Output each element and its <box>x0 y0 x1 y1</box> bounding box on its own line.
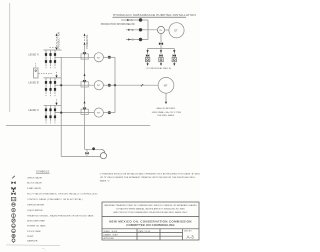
valve on pump discharge <box>159 42 163 45</box>
svg-text:POWER OIL TANK: POWER OIL TANK <box>27 225 46 228</box>
legend row pilot valve <box>11 191 97 196</box>
legend row control panel <box>11 197 82 201</box>
svg-text:LEASE 'C': LEASE 'C' <box>29 109 40 112</box>
wire production line A <box>121 18 148 22</box>
node junction dot A <box>139 18 142 21</box>
svg-text:BASIS "C": BASIS "C" <box>100 180 110 183</box>
svg-text:BLOCK VALVE: BLOCK VALVE <box>27 182 42 185</box>
wellhead WT lease B <box>94 81 103 90</box>
svg-text:OR "B" WELLS WHERE THE SEPARAT: OR "B" WELLS WHERE THE SEPARATE TREATING… <box>100 176 196 179</box>
wire dashed power supply riser A <box>56 33 58 47</box>
wire dashed stub left of riser A <box>50 46 57 48</box>
label vertical riser A <box>59 32 61 49</box>
wire lease B production line <box>55 84 94 86</box>
lease A manifold <box>29 50 62 69</box>
motor ET <box>169 23 184 38</box>
node dot return B <box>60 84 62 86</box>
svg-text:THE WELL BASIS: THE WELL BASIS <box>157 114 175 117</box>
wellhead WT lease A <box>94 53 103 62</box>
sheet left border line <box>9 3 11 112</box>
wire collector bus vertical <box>114 57 116 112</box>
wellhead WT lease C <box>94 108 103 117</box>
svg-text:1/ TREATERS SHOULD BE INSTALLE: 1/ TREATERS SHOULD BE INSTALLED AND OPER… <box>100 172 201 175</box>
svg-text:DATE 2-3-58: DATE 2-3-58 <box>139 230 150 233</box>
title block frame <box>102 202 199 240</box>
svg-text:PRODUCTION SHOWN BELOW: PRODUCTION SHOWN BELOW <box>101 24 136 26</box>
svg-text:A-3: A-3 <box>187 235 195 240</box>
wire production to vessel <box>115 84 158 86</box>
legend row treating vessel <box>12 214 94 218</box>
legend row stock tank <box>12 229 42 233</box>
branch well A feed: wire, valve, meter <box>145 49 149 66</box>
svg-text:PILOT VALVE (PNEUMATIC OR ELEC: PILOT VALVE (PNEUMATIC OR ELECTRICALLY C… <box>27 193 98 196</box>
arrow power feed into lease C manifold <box>55 103 57 106</box>
svg-text:ORIFICE METER: ORIFICE METER <box>27 205 45 207</box>
lease C manifold <box>29 105 62 123</box>
wire dashed stub above lease B <box>56 72 58 76</box>
wire vessel outlet down <box>165 93 167 104</box>
regulator on lease B line <box>81 80 88 87</box>
svg-text:COMMITTEE ON COMMINGLING: COMMITTEE ON COMMINGLING <box>126 223 175 227</box>
title block divider 2 <box>102 228 199 230</box>
title block commission name <box>109 219 192 227</box>
note paragraph <box>100 172 206 182</box>
label TO INDIVIDUAL WELLS <box>146 67 171 70</box>
branch well B feed: wire, valve, meter <box>159 49 163 66</box>
node dot collector B <box>114 84 116 86</box>
wire production header vertical <box>147 20 149 40</box>
arrow power feed into lease B manifold <box>55 75 57 78</box>
svg-text:PRODUCTION: PRODUCTION <box>59 32 61 49</box>
wire distribution header <box>148 48 175 50</box>
regulator on lease C line <box>81 108 88 115</box>
wire production line B <box>126 28 157 32</box>
svg-text:DWG NO: DWG NO <box>184 230 192 232</box>
svg-text:USED SMALL GA. OR 2# PSIG: USED SMALL GA. OR 2# PSIG <box>152 111 182 114</box>
svg-text:DRAWN W.E.P.: DRAWN W.E.P. <box>104 233 119 236</box>
label GAS-OIL RETURN <box>152 107 182 117</box>
title block grid verticals <box>136 229 138 240</box>
legend row power oil tank <box>12 224 46 228</box>
stray pencil mark <box>43 248 46 251</box>
pump (circulating) <box>100 149 106 158</box>
svg-text:STOCK TANK: STOCK TANK <box>27 230 41 233</box>
check valve tick <box>141 84 143 86</box>
wire return bus left vertical <box>60 57 62 156</box>
regulator on lease A line <box>81 52 88 59</box>
svg-text:APPROVED: APPROVED <box>104 237 115 240</box>
svg-text:PUMP: PUMP <box>27 236 34 238</box>
svg-text:B: B <box>132 28 134 32</box>
legend row liquid meter <box>12 208 43 212</box>
legend row 3-way valve <box>11 187 41 191</box>
svg-text:ET: ET <box>174 29 178 32</box>
svg-text:(TO INDIVIDUAL WELLS): (TO INDIVIDUAL WELLS) <box>146 67 171 70</box>
svg-text:WT: WT <box>97 113 101 115</box>
svg-text:CHECK VALVE: CHECK VALVE <box>27 176 43 179</box>
svg-text:LIQUID METER: LIQUID METER <box>27 210 43 212</box>
legend row moisture trap <box>12 219 46 223</box>
svg-text:WT: WT <box>164 84 168 87</box>
fold crease line <box>6 244 60 247</box>
node dot lease C <box>108 111 111 114</box>
node junction dot B <box>139 28 142 31</box>
svg-text:MOISTURE TRAP: MOISTURE TRAP <box>27 220 45 223</box>
svg-text:3-WAY VALVE: 3-WAY VALVE <box>27 187 42 190</box>
svg-text:AND PRODUCTION IS MEASURED ON: AND PRODUCTION IS MEASURED ON AN INDIVID… <box>113 211 188 214</box>
wire pump discharge down <box>160 34 162 49</box>
wire power oil riser (center) <box>84 33 86 149</box>
node dot lease A <box>108 56 111 59</box>
node dot at pump inlet header <box>92 147 95 150</box>
title block divider 1 <box>102 216 199 218</box>
label PRODUCTION SHOWN BELOW <box>101 24 136 26</box>
title: HYDRAULIC SUBSURFACE PUMPING INSTALLATION <box>113 13 196 17</box>
svg-text:C: C <box>132 38 134 42</box>
legend row block valve <box>11 181 42 184</box>
svg-text:LEASE 'B': LEASE 'B' <box>29 82 40 85</box>
svg-text:POWER OIL: POWER OIL <box>87 34 89 49</box>
wire production line C <box>126 38 148 42</box>
wire lease A to collector <box>103 56 115 58</box>
svg-text:LEASE 'A': LEASE 'A' <box>29 54 40 57</box>
title block small texts <box>104 230 195 240</box>
legend row sampler <box>12 239 38 243</box>
wire lease A production line <box>55 56 94 58</box>
legend title SYMBOLS <box>36 170 50 174</box>
wire long return line <box>6 125 150 127</box>
wire lease C production line <box>55 112 94 114</box>
valve at pump suction <box>85 152 88 155</box>
svg-text:A: A <box>131 18 133 22</box>
legend row pump <box>12 234 34 238</box>
svg-text:SCALE N.M.S.: SCALE N.M.S. <box>104 230 119 233</box>
svg-text:WT: WT <box>97 85 101 87</box>
node junction dot C <box>139 38 142 41</box>
regulator box with dashed pilot line <box>34 63 54 78</box>
wire pump to motor <box>165 29 169 31</box>
title underline <box>113 16 187 18</box>
svg-text:~·¸: ~·¸ <box>43 248 46 251</box>
wire valve stub <box>86 149 88 156</box>
svg-text:PU: PU <box>159 30 162 32</box>
pump PU (triplex pump) <box>157 26 164 33</box>
node dot lease B <box>108 84 111 87</box>
legend row check valve <box>12 176 42 180</box>
svg-text:WT: WT <box>97 57 101 59</box>
wire lease C to collector <box>103 112 115 114</box>
label vertical riser center <box>87 34 89 49</box>
wire lease B to collector <box>103 84 115 86</box>
title block grid rows <box>102 232 183 234</box>
svg-text:SAMPLER: SAMPLER <box>27 239 38 242</box>
svg-text:ROYALTIES WHEN MANUAL VALVES A: ROYALTIES WHEN MANUAL VALVES ARE NOT INS… <box>116 208 185 211</box>
svg-text:GAS-OIL RETURN: GAS-OIL RETURN <box>156 107 175 110</box>
svg-text:HYDRAULIC SUBSURFACE PUMPING I: HYDRAULIC SUBSURFACE PUMPING INSTALLATIO… <box>113 13 196 17</box>
title block note lines <box>104 204 197 214</box>
lease B manifold <box>29 78 62 97</box>
branch well C feed: wire, valve, meter <box>172 49 176 66</box>
legend row orifice meter <box>12 203 45 207</box>
treating vessel WT (large) <box>158 77 174 93</box>
wire power oil return elbow <box>85 148 102 150</box>
svg-text:TREATING VESSEL, WASH-PRESSURE: TREATING VESSEL, WASH-PRESSURE OR SETTLI… <box>27 215 94 218</box>
svg-text:MATERIAL TREATERS USED IN COMM: MATERIAL TREATERS USED IN COMMINGLING LI… <box>104 204 197 207</box>
svg-text:CONTROL PANEL (PNEUMATIC OR EL: CONTROL PANEL (PNEUMATIC OR ELECTRICAL) <box>27 198 83 201</box>
wire dashed stub above lease C <box>56 99 58 103</box>
wire return drop to pump suction <box>61 155 100 157</box>
arrow power feed into lease A manifold <box>55 48 57 51</box>
svg-text:SYMBOLS:: SYMBOLS: <box>36 170 50 174</box>
node dot return C <box>60 112 62 114</box>
